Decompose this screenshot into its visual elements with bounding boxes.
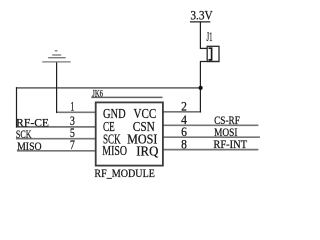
- svg-text:3.3V: 3.3V: [190, 9, 212, 23]
- svg-text:MISO: MISO: [102, 143, 127, 158]
- svg-text:J1: J1: [207, 29, 213, 44]
- svg-text:1: 1: [70, 99, 74, 114]
- svg-text:RF_MODULE: RF_MODULE: [94, 168, 154, 180]
- svg-text:RF-CE: RF-CE: [16, 118, 49, 130]
- svg-text:8: 8: [181, 136, 187, 151]
- svg-text:RF-INT: RF-INT: [213, 139, 247, 151]
- svg-text:SCK: SCK: [16, 129, 32, 141]
- svg-text:MOSI: MOSI: [214, 127, 238, 139]
- svg-text:CS-RF: CS-RF: [214, 115, 240, 127]
- svg-text:MISO: MISO: [17, 141, 41, 153]
- svg-text:IRQ: IRQ: [136, 144, 158, 159]
- svg-text:7: 7: [70, 137, 75, 152]
- svg-text:JK6: JK6: [92, 89, 103, 100]
